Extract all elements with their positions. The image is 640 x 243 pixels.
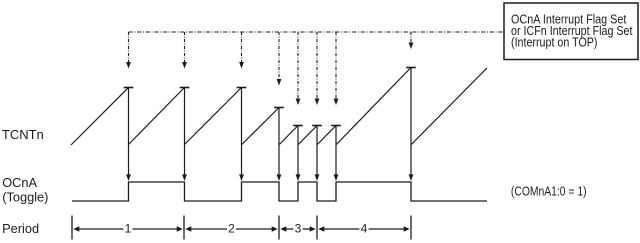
dashed TOP-event arrow 7 xyxy=(334,32,339,105)
svg-text:4: 4 xyxy=(361,221,368,235)
callout box: interrupt flag set xyxy=(504,3,638,60)
TCNTn tooth 6 ramp xyxy=(298,126,317,145)
TCNTn tooth 3 ramp xyxy=(185,88,242,145)
period span 3 double arrow xyxy=(280,226,315,231)
svg-text:(COMnA1:0 = 1): (COMnA1:0 = 1) xyxy=(511,184,587,199)
dashed TOP-event arrow 3 xyxy=(239,32,244,69)
svg-text:(Toggle): (Toggle) xyxy=(2,190,48,205)
svg-text:TCNTn: TCNTn xyxy=(2,127,44,142)
dash-dot feeder line (TOP events to callout box) xyxy=(129,31,505,33)
TCNTn tooth 3 peak cap (TOP) xyxy=(237,87,247,89)
TCNTn tooth 8 ramp xyxy=(336,68,411,145)
toggle arrow 6: TCNTn reset line down to OCnA xyxy=(315,126,320,182)
TCNTn tooth 5 ramp xyxy=(279,126,298,145)
svg-text:Period: Period xyxy=(2,221,39,236)
toggle arrow 7: TCNTn reset line down to OCnA xyxy=(334,126,339,182)
dashed TOP-event arrow 4 xyxy=(277,32,282,86)
toggle arrow 4: TCNTn reset line down to OCnA xyxy=(277,108,282,182)
OCnA (Toggle) waveform xyxy=(72,182,487,201)
TCNTn tooth 1 peak cap (TOP) xyxy=(124,87,134,89)
period tick 3 xyxy=(278,216,280,240)
dashed TOP-event arrow 1 xyxy=(126,32,131,69)
svg-text:OCnA: OCnA xyxy=(2,175,37,190)
dashed TOP-event arrow 2 xyxy=(182,32,187,69)
period span 1 double arrow xyxy=(73,226,182,231)
period tick 2 xyxy=(183,216,185,240)
svg-text:1: 1 xyxy=(125,221,132,235)
period tick 5 xyxy=(410,216,412,240)
toggle arrow 3: TCNTn reset line down to OCnA xyxy=(239,88,244,182)
period span 2 double arrow xyxy=(185,226,277,231)
TCNTn tooth 5 peak cap (TOP) xyxy=(293,125,303,127)
period span 4 double arrow xyxy=(318,226,409,231)
svg-text:(Interrupt on TOP): (Interrupt on TOP) xyxy=(511,34,598,49)
TCNTn final partial ramp xyxy=(411,68,487,145)
dashed TOP-event arrow 6 xyxy=(315,32,320,105)
toggle arrow 5: TCNTn reset line down to OCnA xyxy=(296,126,301,182)
TCNTn tooth 4 peak cap (TOP) xyxy=(274,107,284,109)
TCNTn tooth 2 peak cap (TOP) xyxy=(180,87,190,89)
TCNTn tooth 2 ramp xyxy=(129,88,185,145)
TCNTn tooth 1 ramp xyxy=(71,88,129,146)
toggle arrow 1: TCNTn reset line down to OCnA xyxy=(126,88,131,182)
period tick 1 xyxy=(71,216,73,240)
dashed TOP-event arrow 5 xyxy=(296,32,301,105)
toggle arrow 2: TCNTn reset line down to OCnA xyxy=(182,88,187,182)
period tick 4 xyxy=(316,216,318,240)
TCNTn tooth 6 peak cap (TOP) xyxy=(312,125,322,127)
svg-text:2: 2 xyxy=(228,221,235,235)
dashed TOP-event arrow 8 xyxy=(409,32,414,49)
TCNTn tooth 4 ramp xyxy=(242,108,279,145)
TCNTn tooth 8 peak cap (TOP) xyxy=(406,67,416,69)
svg-text:3: 3 xyxy=(295,221,302,235)
TCNTn tooth 7 peak cap (TOP) xyxy=(331,125,341,127)
TCNTn tooth 7 ramp xyxy=(317,126,336,145)
toggle arrow 8: TCNTn reset line down to OCnA xyxy=(409,68,414,182)
